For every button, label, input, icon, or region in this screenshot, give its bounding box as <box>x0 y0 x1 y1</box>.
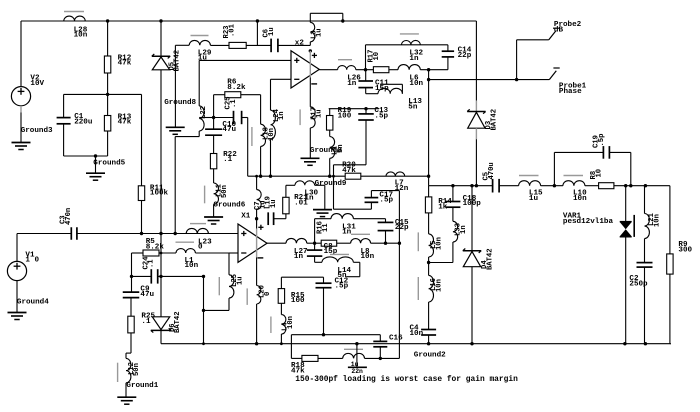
wire top supply rail <box>21 20 476 22</box>
svg-text:47k: 47k <box>342 167 356 175</box>
diode D4 BAT42 <box>463 249 481 267</box>
inductor L17 core bar <box>299 109 301 125</box>
wire L29 to R7 <box>210 44 229 46</box>
capacitor C14 <box>442 51 454 57</box>
wire X1 output <box>267 242 286 244</box>
label R18 47k <box>291 362 305 375</box>
resistor R25 <box>128 316 134 333</box>
ground Ground5 <box>86 173 105 180</box>
wire R18 left <box>291 357 302 359</box>
label R12 47k <box>118 54 132 67</box>
svg-text:X1: X1 <box>241 212 251 220</box>
junction mid rail / C18 <box>451 184 454 187</box>
svg-text:1u: 1u <box>268 27 276 36</box>
svg-text:5n: 5n <box>337 144 345 153</box>
wire C18 top <box>452 186 454 202</box>
wire X1 minus to L25 <box>228 253 230 275</box>
junction L21 tap <box>644 184 647 187</box>
svg-text:0: 0 <box>264 292 272 296</box>
junction C2 / bottom rail <box>644 342 647 345</box>
label Ground5 <box>93 160 125 168</box>
label L6 10n <box>409 75 423 88</box>
label C5 470u <box>483 162 496 180</box>
wire V1 bottom <box>16 281 18 313</box>
label D4 BAT42 <box>481 248 494 270</box>
svg-text:5n: 5n <box>408 103 418 111</box>
svg-text:47u: 47u <box>140 291 154 299</box>
capacitor C15 <box>378 222 394 230</box>
inductor L19 <box>257 190 262 210</box>
junction fb wire / C13 chain <box>332 175 335 178</box>
wire R21 to L30 <box>286 185 295 197</box>
junction C16 / R18 wire <box>379 357 382 360</box>
svg-text:.1: .1 <box>223 156 233 164</box>
wire C10-R22 <box>213 135 215 153</box>
svg-text:10n: 10n <box>74 31 88 39</box>
inductor L15 <box>519 181 541 186</box>
wire C23 to op1 V+ tap <box>278 44 310 46</box>
capacitor C5 <box>493 179 500 193</box>
label C6 1u <box>263 27 276 37</box>
svg-text:10n: 10n <box>409 80 423 88</box>
wire L14 right stub <box>346 262 360 276</box>
wire L15-L10 <box>541 185 563 187</box>
inductor L20 <box>257 286 261 305</box>
capacitor C2 <box>637 263 653 268</box>
wire C2 to rail <box>644 267 646 344</box>
capacitor C3 <box>71 227 77 240</box>
svg-text:250p: 250p <box>629 281 648 289</box>
capacitor C7 <box>268 212 273 225</box>
wire C10 top <box>213 118 215 130</box>
label C12 .5p <box>335 277 349 290</box>
svg-text:10n: 10n <box>287 316 295 329</box>
junction mid rail / D4 <box>470 184 473 187</box>
ground Ground7 bar <box>348 366 367 368</box>
label L15 1u <box>529 190 543 203</box>
inductor L8 core line <box>351 233 370 235</box>
wire input node <box>77 233 238 235</box>
ground Ground8 <box>166 127 185 134</box>
wire mid rail to R14 <box>428 186 430 197</box>
op-amp X1 <box>238 224 267 262</box>
svg-text:150-300pf loading is worst cas: 150-300pf loading is worst case for gain… <box>295 375 518 384</box>
inductor L6 <box>398 65 420 70</box>
inductor L22 <box>199 106 204 131</box>
label L25 1u <box>231 274 244 287</box>
capacitor C25 <box>234 111 242 124</box>
label R17 10 <box>367 50 380 63</box>
inductor L12 core bar <box>117 363 119 382</box>
junction clamp line / C24 wire <box>159 275 162 278</box>
inductor L20 core bar <box>246 288 248 305</box>
label R23 .01 <box>223 23 236 38</box>
label C13 .5p <box>374 107 388 120</box>
junction fb wire / R19 chain <box>328 175 331 178</box>
inductor L15 core line <box>519 175 539 177</box>
wire D5 to input node <box>160 70 162 234</box>
wire TVS to rail <box>625 237 627 344</box>
svg-text:1n: 1n <box>342 229 352 237</box>
svg-text:pesd12vl1ba: pesd12vl1ba <box>563 218 614 226</box>
junction R11 / input node <box>140 232 143 235</box>
wire top bracket <box>310 13 343 22</box>
capacitor C11 <box>358 81 373 88</box>
svg-text:470u: 470u <box>488 162 496 179</box>
ground Ground0 <box>301 158 320 165</box>
svg-text:1u: 1u <box>236 276 244 285</box>
junction L18 / fb wire <box>259 175 262 178</box>
label L14 5n <box>337 267 351 280</box>
wire L17 to ground0 <box>309 128 311 158</box>
wire feedback/supply horizontal <box>248 175 429 177</box>
label C25 .1 <box>225 97 238 110</box>
wire V1 top <box>17 234 71 262</box>
wire R19-L9 <box>329 130 331 136</box>
inductor L26 <box>338 66 356 70</box>
junction ground5 tap <box>94 154 97 157</box>
resistor R23 <box>229 42 246 48</box>
inductor L8 <box>351 239 371 244</box>
wire R9 top <box>669 186 671 254</box>
junction top rail / R12 <box>106 19 109 22</box>
wire R11 top <box>141 94 143 185</box>
label R6 8.2k <box>227 78 246 91</box>
wire L9 to fb wire <box>329 158 331 176</box>
wire L18 to ground6 <box>213 204 215 217</box>
inductor L11 core bar <box>204 186 206 204</box>
wire L4 to rail <box>280 334 282 344</box>
label 22n <box>351 368 363 375</box>
label R22 .1 <box>223 151 237 164</box>
label R5 8.2k <box>146 238 165 251</box>
ground Ground9 <box>313 210 332 217</box>
wire C25 left <box>214 117 234 119</box>
label C11 15p <box>375 80 389 93</box>
wire R7 right <box>246 44 271 46</box>
resistor R14 <box>425 197 431 213</box>
wire C12 top <box>323 277 325 283</box>
wire long feedback riser <box>398 191 400 359</box>
wire L21 top <box>644 186 646 214</box>
wire C11-L13 <box>366 88 378 94</box>
label C8 15p <box>324 243 338 256</box>
wire C9-R25 <box>130 298 132 317</box>
resistor R22 <box>210 154 216 169</box>
svg-text:Ground1: Ground1 <box>126 382 158 390</box>
junction R19 wire / C13 <box>364 107 367 110</box>
inductor L13 <box>378 88 402 93</box>
svg-text:1n: 1n <box>304 194 314 202</box>
wire C11 top <box>365 70 367 81</box>
resistor R9 <box>667 254 673 274</box>
junction TVS / bottom rail <box>623 342 626 345</box>
label L5 10n <box>430 237 443 250</box>
svg-text:1u: 1u <box>316 109 324 118</box>
svg-text:470n: 470n <box>65 208 73 225</box>
label R14 1k <box>438 198 452 211</box>
junction L6 / probe node <box>427 68 430 71</box>
svg-text:10n: 10n <box>436 279 444 292</box>
label L20 0 <box>259 285 272 298</box>
inductor L32 core line <box>400 33 419 35</box>
junction C24 / L25 column <box>202 275 205 278</box>
junction C19 branch <box>553 184 556 187</box>
svg-text:22p: 22p <box>395 224 409 232</box>
capacitor C16 <box>373 341 387 346</box>
diode D5 BAT42 <box>152 54 170 70</box>
junction bracket / top rail <box>341 19 344 22</box>
wire op1 - input <box>271 79 292 110</box>
svg-text:10n: 10n <box>573 195 587 203</box>
svg-text:Ground2: Ground2 <box>414 351 446 359</box>
svg-text:10n: 10n <box>185 262 199 270</box>
label C18 100p <box>463 195 482 208</box>
junction top rail / supply column <box>256 19 259 22</box>
wire V2 to top rail <box>20 21 22 87</box>
label D3 BAT42 <box>485 109 498 131</box>
label V2 10V <box>30 75 44 88</box>
label L31 1n <box>342 223 356 236</box>
voltage source V2 <box>11 87 30 106</box>
wire R25-L12 jog <box>126 333 131 359</box>
svg-text:1n: 1n <box>460 225 468 234</box>
label L7 12n <box>395 180 409 193</box>
wire C8-L14 <box>315 256 322 262</box>
label L3 1u <box>310 28 323 39</box>
junction D4 / bottom rail <box>470 342 473 345</box>
wire feedback node <box>281 277 323 288</box>
junction C4 / bottom rail <box>427 342 430 345</box>
wire op1 + input <box>199 60 291 106</box>
svg-text:0: 0 <box>198 244 203 252</box>
wire L27 to R16 <box>307 242 321 244</box>
capacitor C1 <box>57 118 71 124</box>
label C7 1u <box>254 200 267 210</box>
wire R12 top <box>107 21 109 56</box>
label Ground4 <box>17 299 49 307</box>
wire L31 right <box>353 219 385 223</box>
wire clamp line to D6 <box>160 234 162 317</box>
label Probe2 dB <box>554 21 582 35</box>
svg-text:dB: dB <box>554 27 564 35</box>
wire R13 bottom <box>107 131 109 156</box>
label Ground2 <box>414 351 446 359</box>
svg-text:.1: .1 <box>141 318 151 326</box>
capacitor C13 <box>358 114 374 120</box>
junction X1 V+ node <box>255 217 258 220</box>
svg-text:x2: x2 <box>295 39 305 47</box>
label L19 1u <box>264 196 277 209</box>
wire mid rail <box>429 185 493 187</box>
label Ground8 <box>164 99 196 107</box>
wire C19 right <box>609 152 630 185</box>
wire L29 drop to ground8 <box>175 45 189 127</box>
svg-text:.5p: .5p <box>598 134 606 147</box>
svg-text:C16: C16 <box>389 334 403 342</box>
inductor L24 <box>271 110 276 139</box>
label R8 10 <box>590 169 603 180</box>
inductor L27 <box>286 238 307 243</box>
svg-text:22p: 22p <box>458 52 472 60</box>
wire R5 left <box>132 253 144 276</box>
junction rail / ground7 tap <box>355 342 358 345</box>
wire L21-C2 <box>644 239 646 263</box>
svg-text:10n: 10n <box>268 128 276 141</box>
wire C15 bottom <box>385 231 387 244</box>
wire R6 left <box>214 95 225 118</box>
wire op1 V- pin <box>309 78 311 107</box>
capacitor C24 <box>151 269 157 283</box>
capacitor C17 <box>365 198 379 203</box>
svg-text:.5p: .5p <box>379 197 393 205</box>
wire C16 bottom <box>379 347 381 359</box>
label Ground0 <box>310 147 342 155</box>
inductor L30 <box>295 181 315 185</box>
label C15 22p <box>395 219 409 232</box>
resistor R16 <box>321 240 337 246</box>
resistor R17 <box>373 67 389 73</box>
junction C19 return <box>629 184 632 187</box>
inductor L3 <box>310 22 314 41</box>
wire X1 supply through symbol gray <box>256 229 258 258</box>
wire R6 branch down <box>260 123 262 125</box>
wire D4 to rail <box>471 267 473 344</box>
wire L5 bottom <box>428 257 430 263</box>
inductor L4 core bar <box>270 317 272 334</box>
wire R18 right <box>318 357 343 359</box>
wire op1 supply through symbol gray <box>309 51 311 78</box>
wire X1 V- pin <box>256 257 258 285</box>
label L24 1n <box>273 108 286 122</box>
wire C13 chain to C17 wire <box>334 176 372 209</box>
wire L22 riser <box>175 131 199 234</box>
svg-text:10n: 10n <box>410 330 424 338</box>
junction node R12/R13/C1/R11 <box>106 93 109 96</box>
wire L6 right <box>420 69 448 71</box>
wire C14 bottom <box>447 57 449 70</box>
wire C1 bottom <box>64 124 108 156</box>
label D6 BAT42 <box>169 311 182 333</box>
inductor L12 <box>126 358 131 382</box>
label C1 220u <box>74 113 93 126</box>
inductor L11 <box>214 183 219 204</box>
inductor L29 <box>189 40 210 45</box>
svg-text:.01: .01 <box>228 23 236 37</box>
svg-text:Ground8: Ground8 <box>164 99 196 107</box>
junction L5/L33 node <box>427 261 430 264</box>
inductor L28 core line <box>64 11 84 13</box>
wire R14-L5 <box>428 213 430 234</box>
wire R16-L8 <box>337 242 351 244</box>
svg-text:1 0: 1 0 <box>25 257 39 265</box>
wire L1 to X1 minus <box>195 252 238 254</box>
wire L19 to C7 node <box>256 210 258 219</box>
svg-text:100: 100 <box>338 113 352 121</box>
junction L20 / bottom rail <box>255 342 258 345</box>
svg-text:11: 11 <box>322 223 330 232</box>
svg-text:10: 10 <box>595 169 603 178</box>
inductor L0 core line <box>344 348 363 350</box>
wire L18 to fb wire <box>260 146 262 176</box>
svg-text:Ground4: Ground4 <box>17 299 49 307</box>
svg-text:8.2k: 8.2k <box>146 244 165 252</box>
label L12 50n <box>128 362 141 376</box>
wire L8 right <box>371 242 400 244</box>
svg-text:.1: .1 <box>230 99 238 108</box>
wire supply column <box>256 21 258 45</box>
inductor L32 <box>402 40 421 44</box>
wire R15-L4 <box>280 303 282 314</box>
label R20 47k <box>342 162 356 175</box>
junction probe wire <box>427 78 430 81</box>
svg-text:10n: 10n <box>654 214 662 227</box>
label L9 5n <box>331 144 344 155</box>
wire C4 to rail <box>428 335 430 344</box>
wire L33 bottom <box>429 242 453 263</box>
wire top rail right down <box>475 21 477 101</box>
label Ground6 <box>213 202 245 210</box>
svg-text:50n: 50n <box>133 363 141 376</box>
wire C25 right feedback <box>242 118 248 177</box>
inductor L26 core line <box>338 59 352 61</box>
resistor R19 <box>327 116 333 131</box>
inductor L29 core line <box>191 35 209 37</box>
svg-text:10V: 10V <box>30 80 44 88</box>
junction top rail / D5 <box>159 19 162 22</box>
svg-text:Ground9: Ground9 <box>315 180 347 188</box>
wire L10-R8 <box>585 185 599 187</box>
label R25 .1 <box>141 312 155 325</box>
label L23 0 <box>198 239 212 252</box>
svg-text:1u: 1u <box>270 199 278 208</box>
label R16 11 <box>317 221 330 234</box>
inductor L18 <box>261 124 266 146</box>
wire L25 bottom <box>204 298 230 310</box>
svg-text:Ground3: Ground3 <box>21 127 53 135</box>
svg-text:12n: 12n <box>395 185 409 193</box>
svg-text:1n: 1n <box>294 253 304 261</box>
voltage source V1 <box>7 261 26 280</box>
svg-text:300: 300 <box>678 247 692 255</box>
wire rail tap to ground7 <box>356 344 358 368</box>
junction node R6/C10/C25/L22 <box>212 116 215 119</box>
svg-text:8.2k: 8.2k <box>227 84 246 92</box>
resistor R15 <box>278 289 284 304</box>
resistor R5 <box>143 250 159 256</box>
svg-text:BAT42: BAT42 <box>490 109 498 131</box>
svg-text:1u: 1u <box>529 195 539 203</box>
label Ground9 <box>315 180 347 188</box>
capacitor C9 <box>123 292 140 298</box>
junction input / L22 riser <box>174 232 177 235</box>
svg-text:47k: 47k <box>118 60 132 68</box>
wire D6 to bottom rail <box>160 330 162 343</box>
label D5 BAT42 <box>168 50 181 72</box>
capacitor C6 <box>271 39 278 53</box>
wire L20 to rail <box>256 304 258 344</box>
probe Probe1 <box>549 68 559 80</box>
wire C5 to L15 <box>499 185 518 187</box>
inductor L16 core bar <box>417 277 419 300</box>
wire TVS top <box>625 186 627 222</box>
wire C16 top <box>379 335 381 342</box>
inductor L23 core line <box>190 223 206 225</box>
TVS diode VAR1 pesd12vl1ba <box>620 222 632 237</box>
label VAR1 pesd12vl1ba <box>563 213 614 227</box>
junction L24 / fb wire <box>269 175 272 178</box>
wire L22 tap to R6 node <box>199 117 213 119</box>
